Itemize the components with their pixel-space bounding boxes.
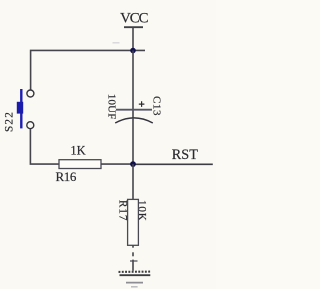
resistor R16 body <box>59 160 101 169</box>
power symbol VCC bar <box>124 26 143 28</box>
ground bar 4 <box>131 286 138 288</box>
wire junction to R17 <box>132 164 134 199</box>
wire junction to RST <box>133 163 213 165</box>
switch S22 actuator bar <box>20 89 22 128</box>
wire capacitor to junction RST <box>132 118 134 164</box>
wire dash to ground <box>132 252 134 256</box>
svg-text:C13: C13 <box>151 96 163 116</box>
ground bar 3 <box>126 282 143 284</box>
capacitor C13 bottom plate arc <box>115 118 153 123</box>
ghost mark <box>113 42 120 44</box>
wire junction to capacitor <box>132 51 134 118</box>
svg-text:R17: R17 <box>117 200 129 221</box>
wire top horizontal <box>31 50 145 89</box>
wire R16 to junction <box>101 163 133 165</box>
svg-text:RST: RST <box>172 147 199 163</box>
ground bar 2 <box>120 274 151 276</box>
switch S22 top terminal <box>27 90 34 97</box>
junction top <box>130 48 136 54</box>
polarity plus <box>139 101 145 107</box>
svg-text:S22: S22 <box>3 111 15 132</box>
wire R17 bottom stub <box>132 245 134 247</box>
svg-text:10UF: 10UF <box>106 94 118 120</box>
ground bar 1 hatched <box>119 271 152 273</box>
wire tick <box>130 260 138 262</box>
switch S22 plunger <box>17 102 23 114</box>
svg-text:1K: 1K <box>70 143 85 157</box>
resistor R17 body <box>128 199 139 245</box>
wire VCC bar to junction <box>132 27 134 50</box>
wire switch to R16 <box>30 129 59 164</box>
switch S22 bottom terminal <box>27 122 34 129</box>
wire to ground <box>132 260 134 271</box>
svg-text:R16: R16 <box>56 169 77 184</box>
junction RST <box>130 161 136 167</box>
capacitor C13 top plate <box>116 109 152 111</box>
svg-text:VCC: VCC <box>120 11 149 27</box>
